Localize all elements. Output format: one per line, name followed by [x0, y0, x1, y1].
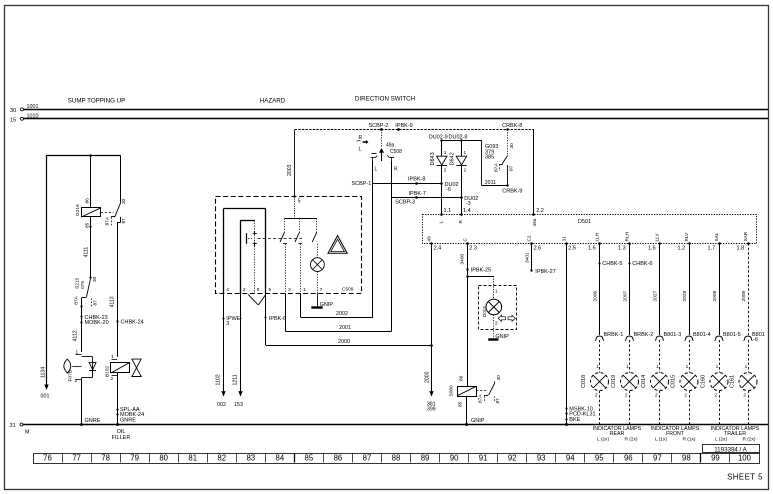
- D501 top pin 2.2 49a: [532, 130, 544, 227]
- svg-text:HAZARD: HAZARD: [260, 98, 286, 105]
- svg-text:CHBK-6: CHBK-6: [632, 261, 652, 267]
- connector B801-3: [655, 332, 681, 341]
- svg-text:C014: C014: [641, 375, 647, 388]
- D501 bottom pin 31 / 2.5: [561, 236, 576, 251]
- svg-text:87A: 87A: [478, 394, 484, 403]
- C509 pin labels: [226, 287, 322, 293]
- relay G216 coil: [75, 156, 101, 228]
- svg-text:075: 075: [80, 281, 86, 289]
- svg-text:5: 5: [298, 198, 301, 204]
- svg-text:DU02-8: DU02-8: [449, 134, 468, 140]
- svg-text:C161: C161: [730, 375, 736, 388]
- svg-text:87A: 87A: [494, 163, 500, 172]
- svg-text:87: 87: [509, 165, 515, 171]
- svg-text:2: 2: [495, 321, 498, 326]
- svg-text:CHBK-24: CHBK-24: [121, 320, 144, 326]
- svg-text:1.4: 1.4: [463, 208, 471, 214]
- indicator lamp C160: [701, 340, 729, 425]
- svg-text:L: L: [438, 221, 443, 224]
- svg-text:L: L: [359, 147, 362, 153]
- svg-text:30: 30: [10, 108, 16, 114]
- svg-text:REAR: REAR: [610, 431, 625, 437]
- svg-text:2.4: 2.4: [434, 245, 442, 251]
- svg-text:R: R: [394, 167, 398, 173]
- svg-text:1.7: 1.7: [708, 245, 716, 251]
- connector BRBK-2: [625, 332, 653, 341]
- svg-text:399: 399: [427, 407, 436, 413]
- D501 bottom pin RLH / 1.3: [618, 232, 631, 251]
- svg-text:001: 001: [41, 394, 50, 400]
- svg-text:2000: 2000: [425, 371, 431, 383]
- svg-text:TRAILER: TRAILER: [724, 431, 746, 437]
- wire 2000: [266, 339, 432, 346]
- svg-text:99: 99: [711, 453, 720, 462]
- D501 bottom pin SAR / 1.8: [737, 231, 750, 251]
- svg-text:89: 89: [421, 453, 430, 462]
- ground GNIP at C509 pin 7: [311, 293, 333, 308]
- C509 switch contacts with mechanical link: [258, 218, 317, 293]
- svg-text:4112: 4112: [73, 330, 79, 341]
- svg-text:92: 92: [508, 453, 517, 462]
- label OIL FILLER: [112, 429, 131, 441]
- svg-text:4113: 4113: [110, 296, 116, 307]
- svg-text:2011: 2011: [485, 180, 496, 186]
- svg-text:4111: 4111: [84, 247, 90, 258]
- svg-text:1: 1: [745, 364, 748, 369]
- svg-text:B102: B102: [105, 365, 111, 377]
- svg-text:2: 2: [743, 393, 746, 398]
- svg-text:2006: 2006: [592, 290, 598, 301]
- svg-text:FILLER: FILLER: [112, 435, 131, 441]
- svg-text:93: 93: [537, 453, 546, 462]
- svg-text:1: 1: [495, 289, 498, 294]
- relay S080 coil: [449, 375, 477, 407]
- wire 2009: [741, 243, 749, 335]
- svg-text:2: 2: [111, 376, 114, 382]
- svg-text:2: 2: [75, 378, 78, 384]
- svg-text:2: 2: [714, 393, 717, 398]
- indicator lamp C018: [581, 340, 609, 425]
- section label HAZARD: [260, 98, 286, 105]
- svg-text:D642: D642: [449, 152, 455, 165]
- svg-text:8: 8: [257, 287, 260, 293]
- connector BRBK-1: [595, 332, 623, 341]
- svg-text:1: 1: [716, 364, 719, 369]
- drawing number 1193394 / A: [703, 445, 760, 454]
- svg-text:D643: D643: [430, 152, 436, 165]
- hazard warning triangle symbol: [328, 236, 347, 254]
- connector B801-6: [744, 332, 765, 343]
- svg-text:80: 80: [159, 453, 168, 462]
- svg-text:1: 1: [444, 150, 447, 155]
- net SCBP-2 / IPBK-9 / CRBK-8: [295, 123, 534, 131]
- svg-text:1: 1: [303, 287, 306, 293]
- svg-text:1134: 1134: [41, 367, 47, 378]
- svg-text:2.2: 2.2: [536, 208, 544, 214]
- legend indicator lamps trailer: [711, 426, 760, 442]
- svg-text:BRBK-1: BRBK-1: [604, 332, 624, 338]
- svg-text:SCBP-1: SCBP-1: [352, 181, 372, 187]
- wire 2006: [592, 243, 622, 335]
- diode D643: [430, 140, 447, 183]
- svg-text:2.5: 2.5: [568, 245, 576, 251]
- wire 2011: [462, 140, 523, 194]
- svg-text:L (2x): L (2x): [715, 436, 727, 442]
- D501 bottom pin RLV / 1.2: [678, 232, 691, 251]
- wire L / net SCBP-1 / IPBK-8: [352, 161, 459, 193]
- svg-text:94: 94: [566, 453, 575, 462]
- svg-text:153: 153: [234, 402, 243, 408]
- flasher unit D501 box: [423, 215, 757, 244]
- svg-text:49a: 49a: [386, 142, 395, 148]
- D501 bottom pin 49 / 2.4: [427, 236, 442, 251]
- svg-text:RLH: RLH: [624, 232, 629, 241]
- svg-text:S215: S215: [75, 277, 81, 289]
- wire to ground, node GNRE: [80, 378, 101, 426]
- svg-text:385: 385: [485, 155, 494, 161]
- svg-text:D501: D501: [578, 219, 591, 225]
- wire 2028: [682, 243, 690, 335]
- C509 frame pins 2-8: [240, 221, 255, 294]
- wire 4111: [84, 217, 91, 278]
- svg-text:D001: D001: [482, 305, 487, 317]
- svg-text:2: 2: [444, 168, 447, 173]
- wire S080 to ground GNIP: [465, 396, 485, 426]
- svg-text:IPBK-25: IPBK-25: [471, 267, 491, 273]
- wire R continues to 2001: [391, 198, 393, 331]
- D501 top pin 1.1 L: [438, 183, 451, 223]
- svg-text:82: 82: [217, 453, 226, 462]
- svg-text:2: 2: [684, 393, 687, 398]
- relay contact G093 379 385: [485, 130, 515, 186]
- wire 2027: [652, 243, 659, 335]
- svg-text:BKE: BKE: [569, 417, 580, 423]
- svg-text:86: 86: [334, 453, 343, 462]
- svg-text:49a: 49a: [532, 218, 537, 226]
- svg-text:2003: 2003: [287, 164, 293, 176]
- svg-text:88: 88: [392, 453, 401, 462]
- wire L continues to 2002: [372, 183, 374, 317]
- svg-text:LLV: LLV: [654, 233, 659, 242]
- svg-text:1102: 1102: [216, 374, 222, 385]
- svg-text:31: 31: [10, 423, 16, 429]
- svg-text:C015: C015: [671, 375, 677, 388]
- svg-text:98: 98: [682, 453, 691, 462]
- svg-text:87A: 87A: [105, 216, 111, 225]
- svg-text:BRBK-2: BRBK-2: [634, 332, 654, 338]
- svg-text:FRONT: FRONT: [666, 431, 685, 437]
- lamp D001: [482, 299, 502, 325]
- svg-text:M: M: [25, 430, 30, 436]
- svg-text:-6: -6: [446, 187, 451, 193]
- svg-text:SCBP-3: SCBP-3: [395, 200, 415, 206]
- svg-text:30: 30: [92, 276, 98, 282]
- svg-text:1.1: 1.1: [444, 208, 452, 214]
- svg-text:DU02-9: DU02-9: [429, 134, 448, 140]
- svg-text:IPBK-6: IPBK-6: [269, 316, 286, 322]
- wire 1211 to node 153: [233, 293, 243, 408]
- svg-text:2: 2: [464, 168, 467, 173]
- svg-text:84: 84: [275, 453, 284, 462]
- svg-text:96: 96: [624, 453, 633, 462]
- svg-text:2009: 2009: [741, 290, 747, 301]
- svg-text:L: L: [375, 167, 378, 173]
- svg-text:1: 1: [464, 150, 467, 155]
- C509 illumination element: [247, 231, 258, 293]
- wire 4112, nodes CHBK-23 / MOBK-20: [73, 298, 109, 352]
- power rail 15, wire 1010: [10, 113, 768, 123]
- svg-text:3: 3: [226, 321, 229, 327]
- svg-text:-6: -6: [753, 337, 758, 343]
- svg-text:1: 1: [626, 364, 629, 369]
- indicator lamp C019: [611, 340, 639, 425]
- wire 2001: [285, 293, 391, 331]
- svg-text:B801-5: B801-5: [723, 332, 741, 338]
- svg-text:B801-3: B801-3: [664, 332, 682, 338]
- svg-text:2: 2: [595, 393, 598, 398]
- relay G216 contact 30/87A/87: [101, 156, 127, 226]
- svg-text:GNIP: GNIP: [471, 418, 485, 424]
- svg-text:S080: S080: [449, 385, 455, 397]
- D501 bottom pin LLV / 1.5: [648, 233, 661, 252]
- svg-text:1.5: 1.5: [648, 245, 656, 251]
- C509 pin 5: [293, 195, 301, 218]
- svg-text:6: 6: [269, 287, 272, 293]
- svg-text:R (1x): R (1x): [682, 436, 695, 442]
- ground rail 31: [10, 423, 769, 436]
- indicator lamp C014: [641, 340, 669, 425]
- svg-text:30: 30: [121, 198, 127, 204]
- svg-text:30: 30: [496, 375, 502, 381]
- svg-text:87: 87: [363, 453, 372, 462]
- wire 1134 to node 001: [41, 156, 50, 400]
- svg-text:DIRECTION SWITCH: DIRECTION SWITCH: [355, 96, 415, 103]
- D501 bottom pin C / 2.3: [462, 238, 477, 252]
- C509 pilot lamp: [311, 244, 325, 293]
- solenoid valve B102: [105, 354, 142, 382]
- svg-text:IPBK-7: IPBK-7: [409, 191, 426, 197]
- svg-text:83: 83: [246, 453, 255, 462]
- legend indicator lamps front: [651, 426, 700, 442]
- svg-text:3400: 3400: [459, 253, 465, 264]
- svg-text:87A: 87A: [74, 295, 80, 304]
- svg-text:002: 002: [217, 402, 226, 408]
- svg-text:49: 49: [427, 236, 432, 242]
- wire 2007: [622, 243, 652, 335]
- section label SUMP TOPPING UP: [68, 98, 125, 105]
- svg-text:MOBK-20: MOBK-20: [85, 320, 109, 326]
- wire from pin 6, node IPBK-6: [264, 293, 286, 345]
- svg-text:2: 2: [625, 393, 628, 398]
- svg-text:30: 30: [509, 143, 515, 149]
- legend indicator lamps rear: [593, 426, 642, 442]
- connector V symbol below pins 8-6: [248, 294, 266, 305]
- svg-text:1.3: 1.3: [618, 245, 626, 251]
- section label DIRECTION SWITCH: [355, 96, 415, 103]
- direction arrows symbol: [498, 315, 515, 321]
- C509 frame pins 4-6: [223, 209, 265, 294]
- svg-text:SUMP TOPPING UP: SUMP TOPPING UP: [68, 98, 125, 105]
- svg-text:15: 15: [10, 118, 16, 124]
- svg-text:2000: 2000: [338, 339, 350, 345]
- svg-text:90: 90: [450, 453, 459, 462]
- svg-text:L (2x): L (2x): [597, 436, 609, 442]
- wire top bus of sump circuit: [46, 154, 121, 157]
- svg-text:79: 79: [130, 453, 139, 462]
- net DU02-9 / DU02-8 diode tops: [429, 134, 468, 141]
- indicator lamp C161: [730, 340, 758, 425]
- svg-text:1.8: 1.8: [737, 245, 745, 251]
- svg-text:-3: -3: [466, 201, 471, 207]
- C509 internal common bar: [285, 218, 317, 220]
- connector B801-4: [685, 332, 711, 341]
- pump F07B with diode: [64, 350, 96, 384]
- wire 3400, node IPBK-25: [459, 243, 491, 386]
- svg-text:C509: C509: [342, 287, 354, 293]
- D501 top pin 1.4 R: [458, 198, 471, 224]
- svg-text:100: 100: [738, 453, 752, 462]
- connector B801-5: [715, 332, 741, 341]
- svg-text:2.6: 2.6: [534, 245, 542, 251]
- svg-text:B801-4: B801-4: [693, 332, 711, 338]
- svg-text:2001: 2001: [339, 325, 351, 331]
- sheet label: [727, 473, 763, 482]
- svg-text:2: 2: [655, 393, 658, 398]
- svg-text:85: 85: [458, 401, 464, 407]
- svg-text:SCBP-2: SCBP-2: [369, 123, 389, 129]
- svg-text:3: 3: [288, 287, 291, 293]
- svg-text:R (2x): R (2x): [624, 436, 637, 442]
- wire 2002: [301, 293, 373, 317]
- D501 bottom pin SAL / 1.7: [708, 232, 721, 251]
- svg-text:2: 2: [243, 287, 246, 293]
- wire D501 31 to ground rail, nodes MSBK-10 / PCD-KL31 / BKE: [565, 243, 596, 426]
- svg-text:2028: 2028: [682, 290, 688, 301]
- wire 1102 to node 002, node IPWE-3: [216, 293, 243, 408]
- svg-text:76: 76: [43, 453, 52, 462]
- svg-text:87: 87: [93, 300, 99, 306]
- wire 3401, node IPBK-27: [524, 243, 555, 274]
- svg-text:RLV: RLV: [684, 232, 689, 242]
- ground GNIP below D001: [488, 315, 509, 340]
- svg-text:2.3: 2.3: [469, 245, 477, 251]
- svg-text:IPBK-8: IPBK-8: [408, 177, 425, 183]
- svg-text:CRBK-8: CRBK-8: [502, 123, 522, 129]
- svg-text:1: 1: [596, 364, 599, 369]
- svg-text:F07B: F07B: [68, 370, 74, 381]
- svg-text:2002: 2002: [336, 311, 348, 317]
- svg-text:85: 85: [85, 222, 91, 228]
- wire R / net IPBK-7 / SCBP-3: [392, 161, 479, 207]
- svg-text:97: 97: [653, 453, 662, 462]
- wire 2008: [712, 243, 720, 335]
- direction switch C508 lever: [357, 130, 403, 161]
- relay S080 contact: [476, 375, 502, 404]
- svg-text:86: 86: [458, 375, 464, 381]
- svg-text:81: 81: [188, 453, 197, 462]
- svg-text:31: 31: [561, 236, 566, 242]
- wire 2003: [287, 130, 295, 196]
- svg-text:86: 86: [85, 198, 91, 204]
- wire to ground, nodes SPL-AA / MOBK-24 / GNRE: [116, 373, 144, 426]
- svg-text:CHBK-5: CHBK-5: [602, 261, 622, 267]
- svg-text:78: 78: [101, 453, 110, 462]
- C508 L contact: [371, 156, 378, 173]
- svg-text:G216: G216: [75, 204, 81, 216]
- svg-text:1: 1: [686, 364, 689, 369]
- svg-text:CRBK-9: CRBK-9: [502, 188, 522, 194]
- diode D642: [449, 140, 466, 198]
- wire from D501 49 to 2000 and node 381/399: [425, 243, 436, 412]
- svg-text:C018: C018: [581, 375, 587, 388]
- svg-text:2027: 2027: [652, 290, 658, 301]
- svg-text:7: 7: [320, 287, 323, 293]
- svg-text:2008: 2008: [712, 290, 718, 301]
- svg-text:4: 4: [226, 287, 229, 293]
- svg-text:L (1x): L (1x): [655, 436, 667, 442]
- svg-text:LLH: LLH: [594, 233, 599, 242]
- svg-text:SAR: SAR: [743, 231, 748, 241]
- svg-text:C2: C2: [527, 235, 532, 241]
- svg-text:3401: 3401: [524, 252, 530, 263]
- hazard switch C509 enclosure: [216, 197, 362, 294]
- svg-text:C508: C508: [390, 149, 402, 155]
- D501 bottom pin LLH / 1.6: [588, 233, 601, 251]
- grid reference strip 76-100: [34, 453, 760, 464]
- power rail 30, wire 1001: [10, 104, 768, 114]
- svg-text:GNRE: GNRE: [120, 418, 136, 424]
- svg-text:85: 85: [305, 453, 314, 462]
- svg-text:SAL: SAL: [714, 232, 719, 241]
- D501 bottom pin C2 / 2.6: [527, 235, 542, 251]
- svg-text:1211: 1211: [233, 374, 239, 385]
- svg-text:IPBK-27: IPBK-27: [535, 269, 555, 275]
- C508 R contact: [387, 156, 398, 173]
- svg-text:87: 87: [121, 218, 127, 224]
- svg-text:R (2x): R (2x): [742, 436, 755, 442]
- indicator lamp C015: [671, 340, 699, 425]
- svg-text:1: 1: [656, 364, 659, 369]
- svg-text:GNRE: GNRE: [85, 418, 101, 424]
- wire 4113, node CHBK-24: [110, 222, 144, 357]
- svg-text:87: 87: [495, 398, 501, 404]
- svg-text:95: 95: [595, 453, 604, 462]
- svg-text:2007: 2007: [622, 290, 628, 301]
- switch S215 (075): [74, 276, 99, 306]
- svg-text:SHEET 5: SHEET 5: [727, 473, 763, 482]
- svg-text:77: 77: [72, 453, 81, 462]
- svg-text:1.6: 1.6: [588, 245, 596, 251]
- svg-text:C160: C160: [701, 375, 707, 388]
- svg-text:C019: C019: [611, 375, 617, 388]
- svg-text:91: 91: [479, 453, 488, 462]
- pilot lamp D001 enclosure: [468, 276, 517, 330]
- svg-text:1.2: 1.2: [678, 245, 686, 251]
